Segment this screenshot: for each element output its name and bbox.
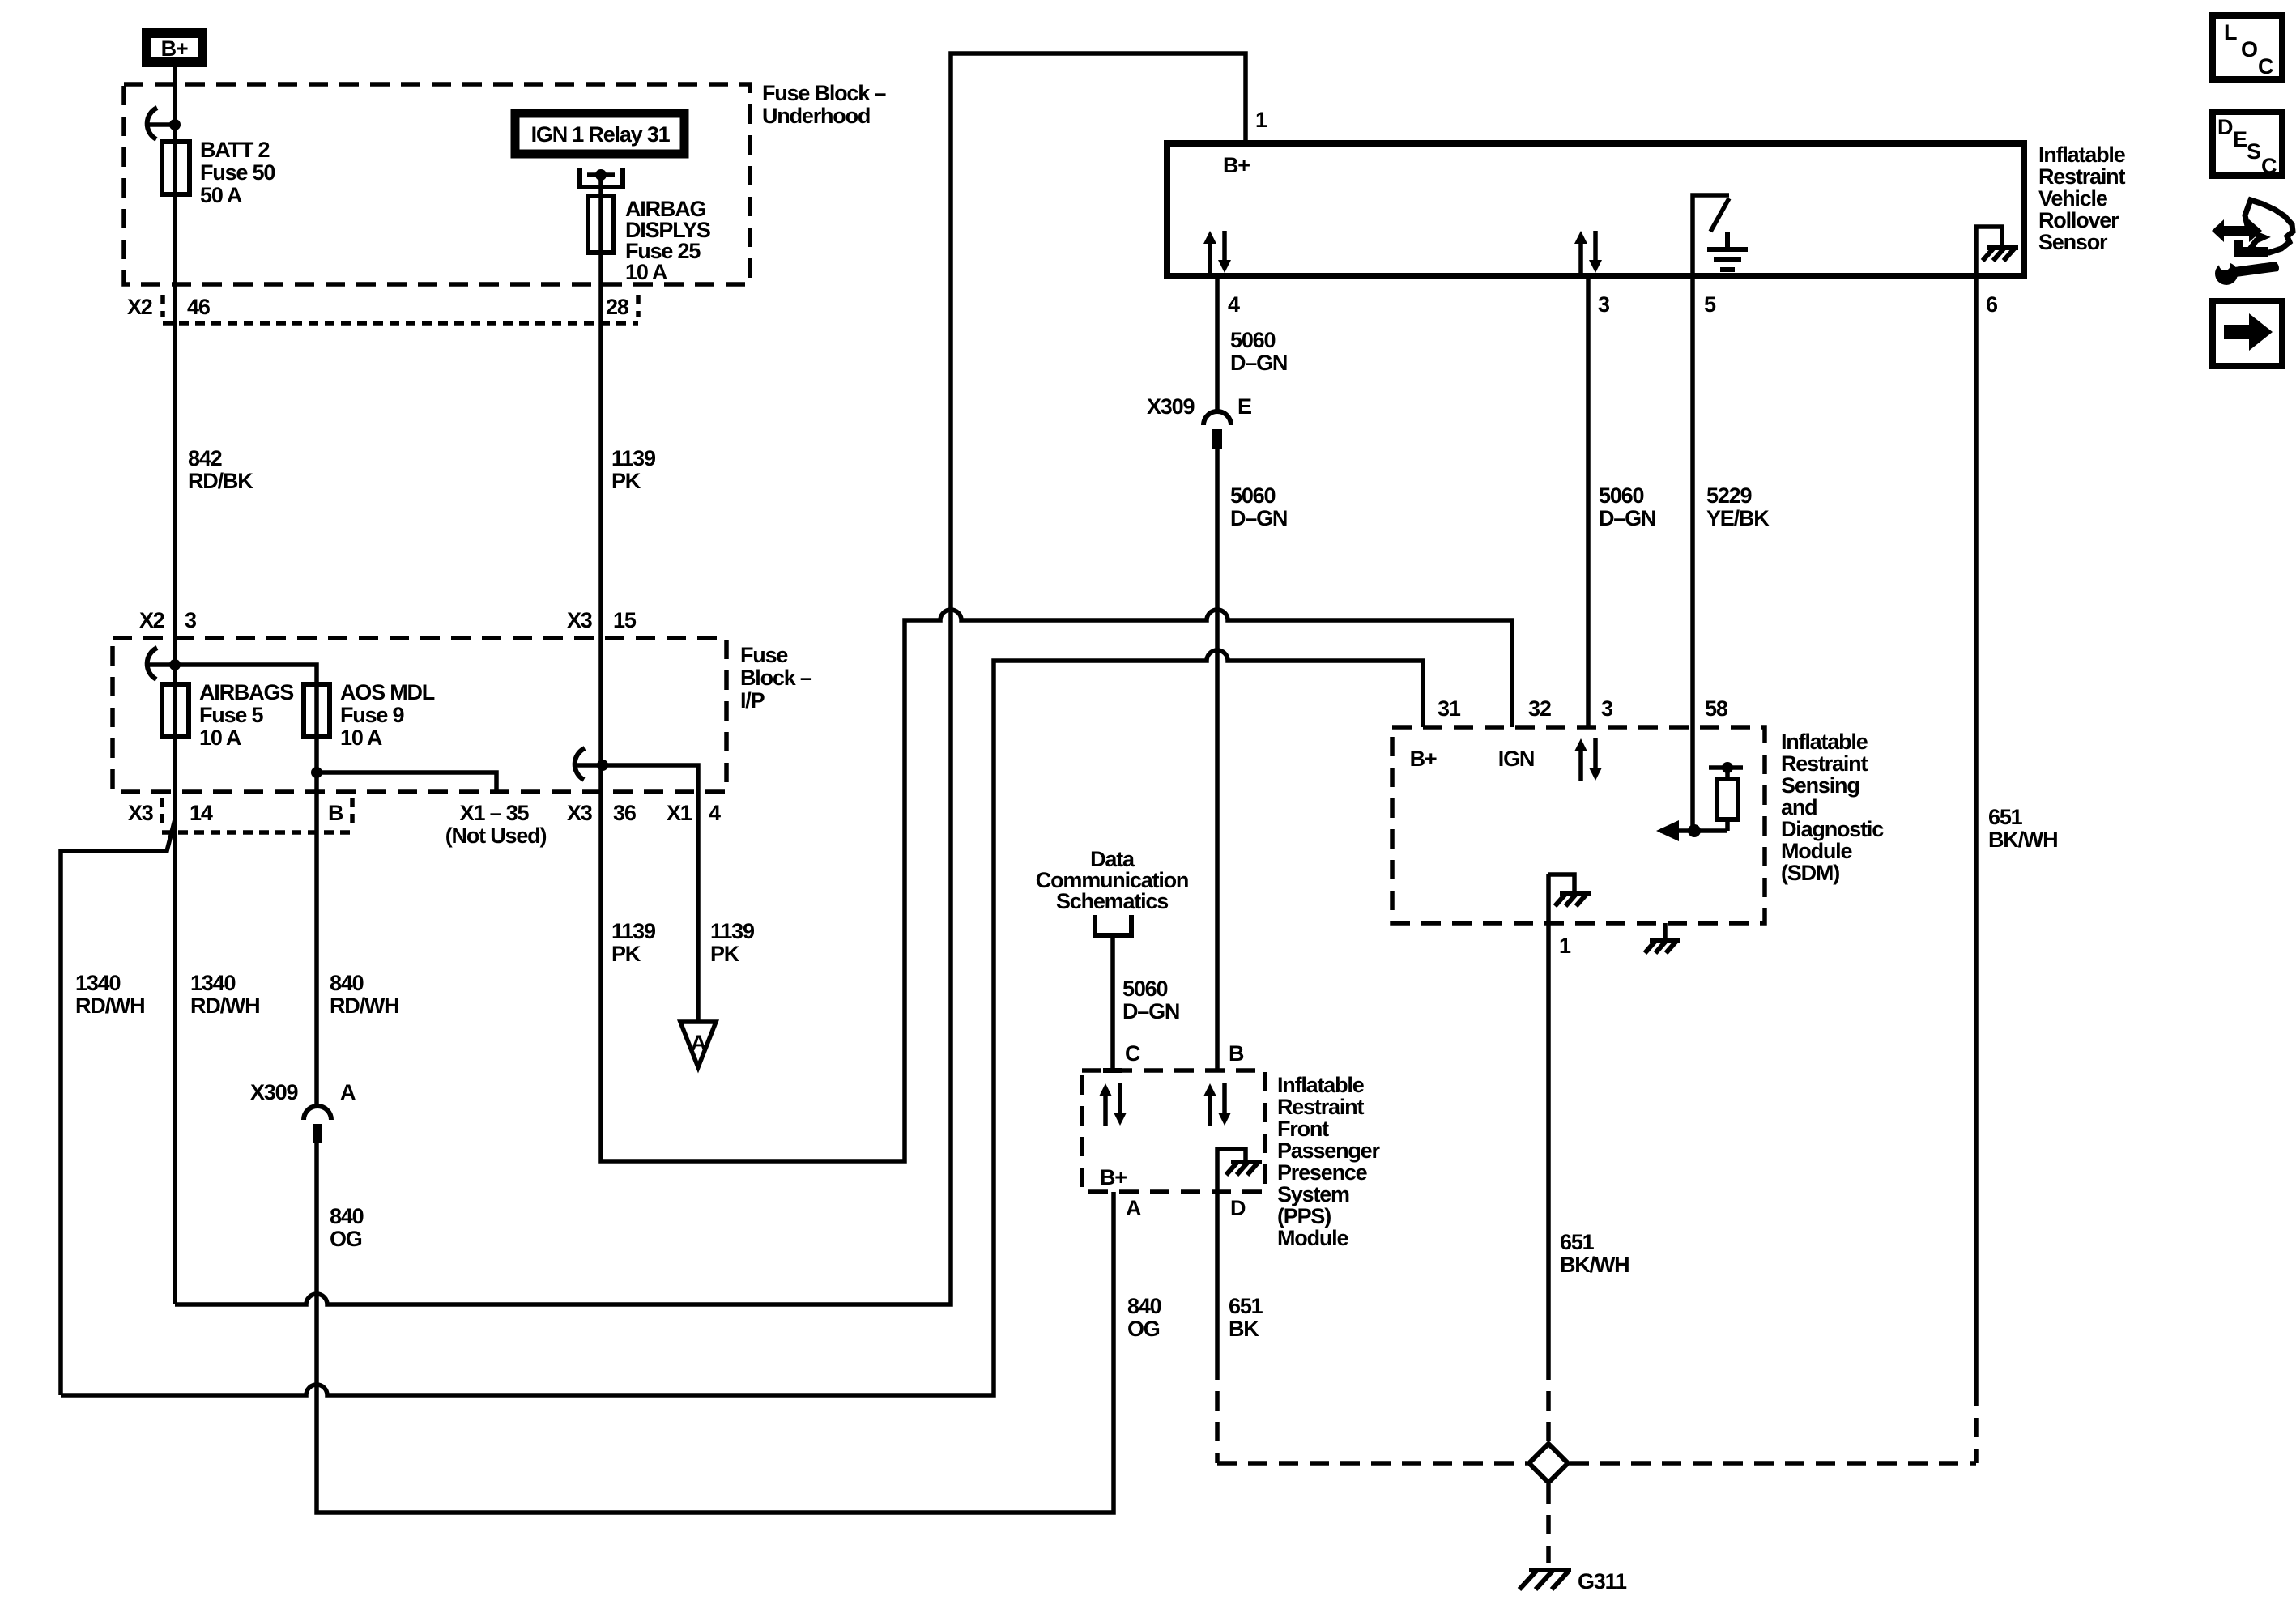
svg-text:X1 – 35: X1 – 35	[460, 801, 530, 825]
svg-text:OG: OG	[330, 1227, 362, 1251]
svg-text:D–GN: D–GN	[1230, 351, 1287, 375]
svg-text:1139: 1139	[611, 446, 656, 470]
svg-text:A: A	[1126, 1196, 1141, 1220]
svg-text:5060: 5060	[1122, 977, 1167, 1001]
svg-text:BK/WH: BK/WH	[1988, 828, 2057, 852]
svg-text:36: 36	[613, 801, 637, 825]
svg-text:Schematics: Schematics	[1056, 889, 1168, 913]
svg-text:RD/WH: RD/WH	[190, 994, 259, 1018]
svg-text:4: 4	[709, 801, 721, 825]
svg-text:C: C	[1125, 1041, 1140, 1066]
svg-text:YE/BK: YE/BK	[1706, 506, 1770, 530]
svg-text:D: D	[1230, 1196, 1246, 1220]
svg-text:1340: 1340	[190, 971, 235, 995]
svg-text:RD/WH: RD/WH	[330, 994, 398, 1018]
svg-text:PK: PK	[611, 469, 641, 493]
svg-text:Underhood: Underhood	[762, 104, 870, 128]
svg-text:BK/WH: BK/WH	[1560, 1253, 1629, 1277]
svg-text:Inflatable: Inflatable	[1277, 1073, 1365, 1097]
svg-text:651: 651	[1988, 805, 2023, 829]
svg-text:X3: X3	[567, 801, 593, 825]
svg-text:B+: B+	[161, 36, 188, 61]
svg-text:10 A: 10 A	[625, 260, 667, 284]
svg-text:B+: B+	[1100, 1165, 1127, 1189]
svg-text:and: and	[1781, 795, 1817, 819]
svg-text:Restraint: Restraint	[2038, 164, 2125, 189]
svg-text:X309: X309	[250, 1080, 298, 1104]
svg-text:AIRBAGS: AIRBAGS	[199, 680, 293, 704]
svg-text:1340: 1340	[75, 971, 120, 995]
svg-text:1: 1	[1559, 934, 1571, 958]
svg-text:5: 5	[1704, 292, 1716, 317]
svg-text:5060: 5060	[1230, 328, 1275, 352]
svg-text:D–GN: D–GN	[1230, 506, 1287, 530]
svg-text:50 A: 50 A	[200, 183, 242, 207]
svg-text:PK: PK	[611, 942, 641, 966]
svg-text:OG: OG	[1127, 1317, 1160, 1341]
svg-text:Fuse 50: Fuse 50	[200, 160, 275, 185]
svg-text:BK: BK	[1229, 1317, 1259, 1341]
svg-text:Rollover: Rollover	[2038, 208, 2119, 232]
svg-text:842: 842	[188, 446, 222, 470]
svg-text:Diagnostic: Diagnostic	[1781, 817, 1884, 841]
svg-text:651: 651	[1560, 1230, 1595, 1254]
svg-text:B+: B+	[1223, 153, 1250, 177]
svg-text:X2: X2	[139, 608, 164, 632]
svg-text:3: 3	[185, 608, 197, 632]
svg-text:Module: Module	[1781, 839, 1852, 863]
svg-text:AOS MDL: AOS MDL	[340, 680, 435, 704]
svg-text:D: D	[2217, 115, 2233, 139]
svg-text:10 A: 10 A	[199, 726, 241, 750]
svg-text:651: 651	[1229, 1294, 1263, 1318]
svg-text:Block –: Block –	[740, 666, 812, 690]
svg-text:Sensing: Sensing	[1781, 773, 1859, 798]
svg-text:RD/BK: RD/BK	[188, 469, 253, 493]
svg-text:RD/WH: RD/WH	[75, 994, 144, 1018]
svg-text:E: E	[2233, 127, 2247, 151]
svg-text:Passenger: Passenger	[1277, 1138, 1380, 1163]
svg-text:C: C	[2258, 54, 2273, 79]
svg-text:Restraint: Restraint	[1781, 751, 1868, 776]
svg-text:Fuse: Fuse	[740, 643, 788, 667]
svg-text:O: O	[2241, 37, 2257, 62]
svg-text:IGN 1 Relay 31: IGN 1 Relay 31	[531, 122, 671, 147]
svg-text:3: 3	[1601, 696, 1613, 721]
svg-text:Presence: Presence	[1277, 1160, 1368, 1185]
svg-text:840: 840	[330, 1204, 364, 1228]
svg-text:X1: X1	[667, 801, 692, 825]
svg-text:(SDM): (SDM)	[1781, 861, 1839, 885]
svg-text:Fuse Block –: Fuse Block –	[762, 81, 886, 105]
svg-text:1139: 1139	[710, 919, 755, 943]
svg-text:Sensor: Sensor	[2038, 230, 2108, 254]
svg-text:15: 15	[613, 608, 637, 632]
svg-text:B: B	[1229, 1041, 1244, 1066]
svg-text:Fuse 9: Fuse 9	[340, 703, 405, 727]
svg-text:G311: G311	[1578, 1569, 1627, 1594]
svg-text:5060: 5060	[1230, 483, 1275, 508]
svg-text:X309: X309	[1147, 394, 1195, 419]
svg-text:L: L	[2224, 20, 2237, 45]
svg-text:14: 14	[190, 801, 213, 825]
svg-text:A: A	[691, 1031, 706, 1055]
svg-text:B+: B+	[1410, 747, 1437, 771]
svg-text:IGN: IGN	[1498, 747, 1534, 771]
svg-text:5060: 5060	[1599, 483, 1643, 508]
svg-text:X3: X3	[128, 801, 154, 825]
svg-text:Fuse 5: Fuse 5	[199, 703, 264, 727]
svg-text:840: 840	[1127, 1294, 1161, 1318]
svg-text:Vehicle: Vehicle	[2038, 186, 2108, 211]
svg-text:C: C	[2261, 154, 2277, 178]
svg-text:X2: X2	[127, 295, 152, 319]
svg-text:X3: X3	[567, 608, 593, 632]
svg-text:D–GN: D–GN	[1122, 999, 1179, 1023]
svg-text:(PPS): (PPS)	[1277, 1204, 1331, 1228]
svg-text:B: B	[328, 801, 343, 825]
svg-text:32: 32	[1528, 696, 1551, 721]
svg-text:System: System	[1277, 1182, 1349, 1206]
svg-text:D–GN: D–GN	[1599, 506, 1655, 530]
svg-text:Front: Front	[1277, 1117, 1329, 1141]
svg-text:58: 58	[1705, 696, 1728, 721]
svg-text:6: 6	[1986, 292, 1998, 317]
svg-text:46: 46	[187, 295, 211, 319]
svg-text:10 A: 10 A	[340, 726, 382, 750]
svg-text:31: 31	[1438, 696, 1461, 721]
svg-text:I/P: I/P	[740, 688, 765, 713]
svg-text:Restraint: Restraint	[1277, 1095, 1364, 1119]
svg-text:PK: PK	[710, 942, 740, 966]
svg-text:(Not Used): (Not Used)	[445, 823, 547, 848]
svg-text:S: S	[2247, 139, 2260, 164]
svg-text:Inflatable: Inflatable	[1781, 730, 1868, 754]
svg-text:3: 3	[1598, 292, 1610, 317]
svg-text:840: 840	[330, 971, 364, 995]
svg-text:Module: Module	[1277, 1226, 1348, 1250]
svg-text:A: A	[340, 1080, 356, 1104]
svg-text:28: 28	[606, 295, 629, 319]
svg-text:BATT 2: BATT 2	[200, 138, 269, 162]
svg-text:5229: 5229	[1706, 483, 1752, 508]
svg-text:1139: 1139	[611, 919, 656, 943]
svg-text:1: 1	[1255, 108, 1267, 132]
svg-text:Inflatable: Inflatable	[2038, 143, 2126, 167]
svg-text:4: 4	[1228, 292, 1240, 317]
svg-text:E: E	[1237, 394, 1251, 419]
